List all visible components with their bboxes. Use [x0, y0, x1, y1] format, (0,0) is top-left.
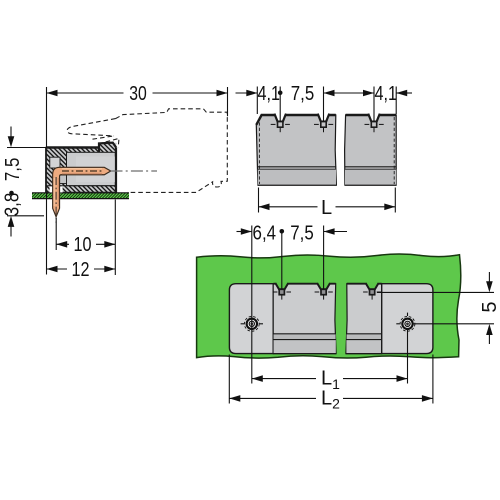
front V-notch pin 2 — [314, 113, 333, 132]
svg-text:4,1: 4,1 — [258, 83, 281, 105]
dimension 30 — [47, 83, 228, 147]
front block right — [345, 115, 397, 185]
dimension 3,8 (side) — [2, 191, 45, 237]
top-view V-notch pin 1 — [273, 282, 291, 299]
svg-text:3,8: 3,8 — [2, 193, 24, 217]
svg-text:30: 30 — [129, 83, 147, 105]
PCB side-section green bar — [32, 193, 129, 199]
pin centerlines — [62, 170, 104, 172]
left block middle section — [273, 284, 336, 354]
right block middle section — [346, 284, 382, 354]
dimension 12 — [47, 193, 116, 282]
svg-text:7,5: 7,5 — [291, 83, 315, 105]
dimension 7,5 (front) — [291, 83, 374, 121]
front block left — [256, 115, 336, 185]
green PCB — [197, 254, 461, 358]
dimension 7,5 (top view) — [290, 223, 347, 290]
top-view V-notch pin 2 — [315, 282, 333, 299]
front V-notch pin 1 — [271, 113, 290, 132]
mating plug dashed outline — [67, 109, 227, 193]
svg-text:7,5: 7,5 — [290, 223, 314, 245]
dimension 5 (right side) — [377, 272, 500, 344]
svg-text:10: 10 — [74, 234, 92, 256]
dimension 7,5 (side) — [2, 127, 46, 182]
dimension L — [259, 188, 396, 219]
PCB hole clearance — [50, 186, 53, 192]
right end plate with mounting flange — [382, 284, 433, 354]
mounting hole right — [396, 313, 415, 332]
dimension 4,1 (front right) — [374, 83, 412, 121]
svg-text:5: 5 — [479, 301, 500, 312]
connector housing side section — [46, 143, 117, 193]
dimension 4,1 (front left) — [236, 83, 283, 121]
svg-text:7,5: 7,5 — [2, 158, 24, 182]
svg-text:4,1: 4,1 — [375, 83, 398, 105]
top-view V-notch pin 3 — [363, 282, 381, 299]
front V-notch pin 3 — [365, 113, 384, 132]
svg-text:12: 12 — [72, 259, 90, 281]
dimension L2 — [229, 355, 433, 412]
svg-text:L: L — [321, 197, 332, 219]
dimension 10 — [56, 200, 115, 276]
dimension L1 — [252, 328, 408, 392]
svg-text:6,4: 6,4 — [253, 223, 277, 245]
mounting hole left — [241, 316, 263, 331]
left end plate with mounting flange — [229, 284, 273, 354]
solder pin (angled) — [53, 167, 111, 216]
dimension 6,4 (top view) — [237, 223, 285, 384]
